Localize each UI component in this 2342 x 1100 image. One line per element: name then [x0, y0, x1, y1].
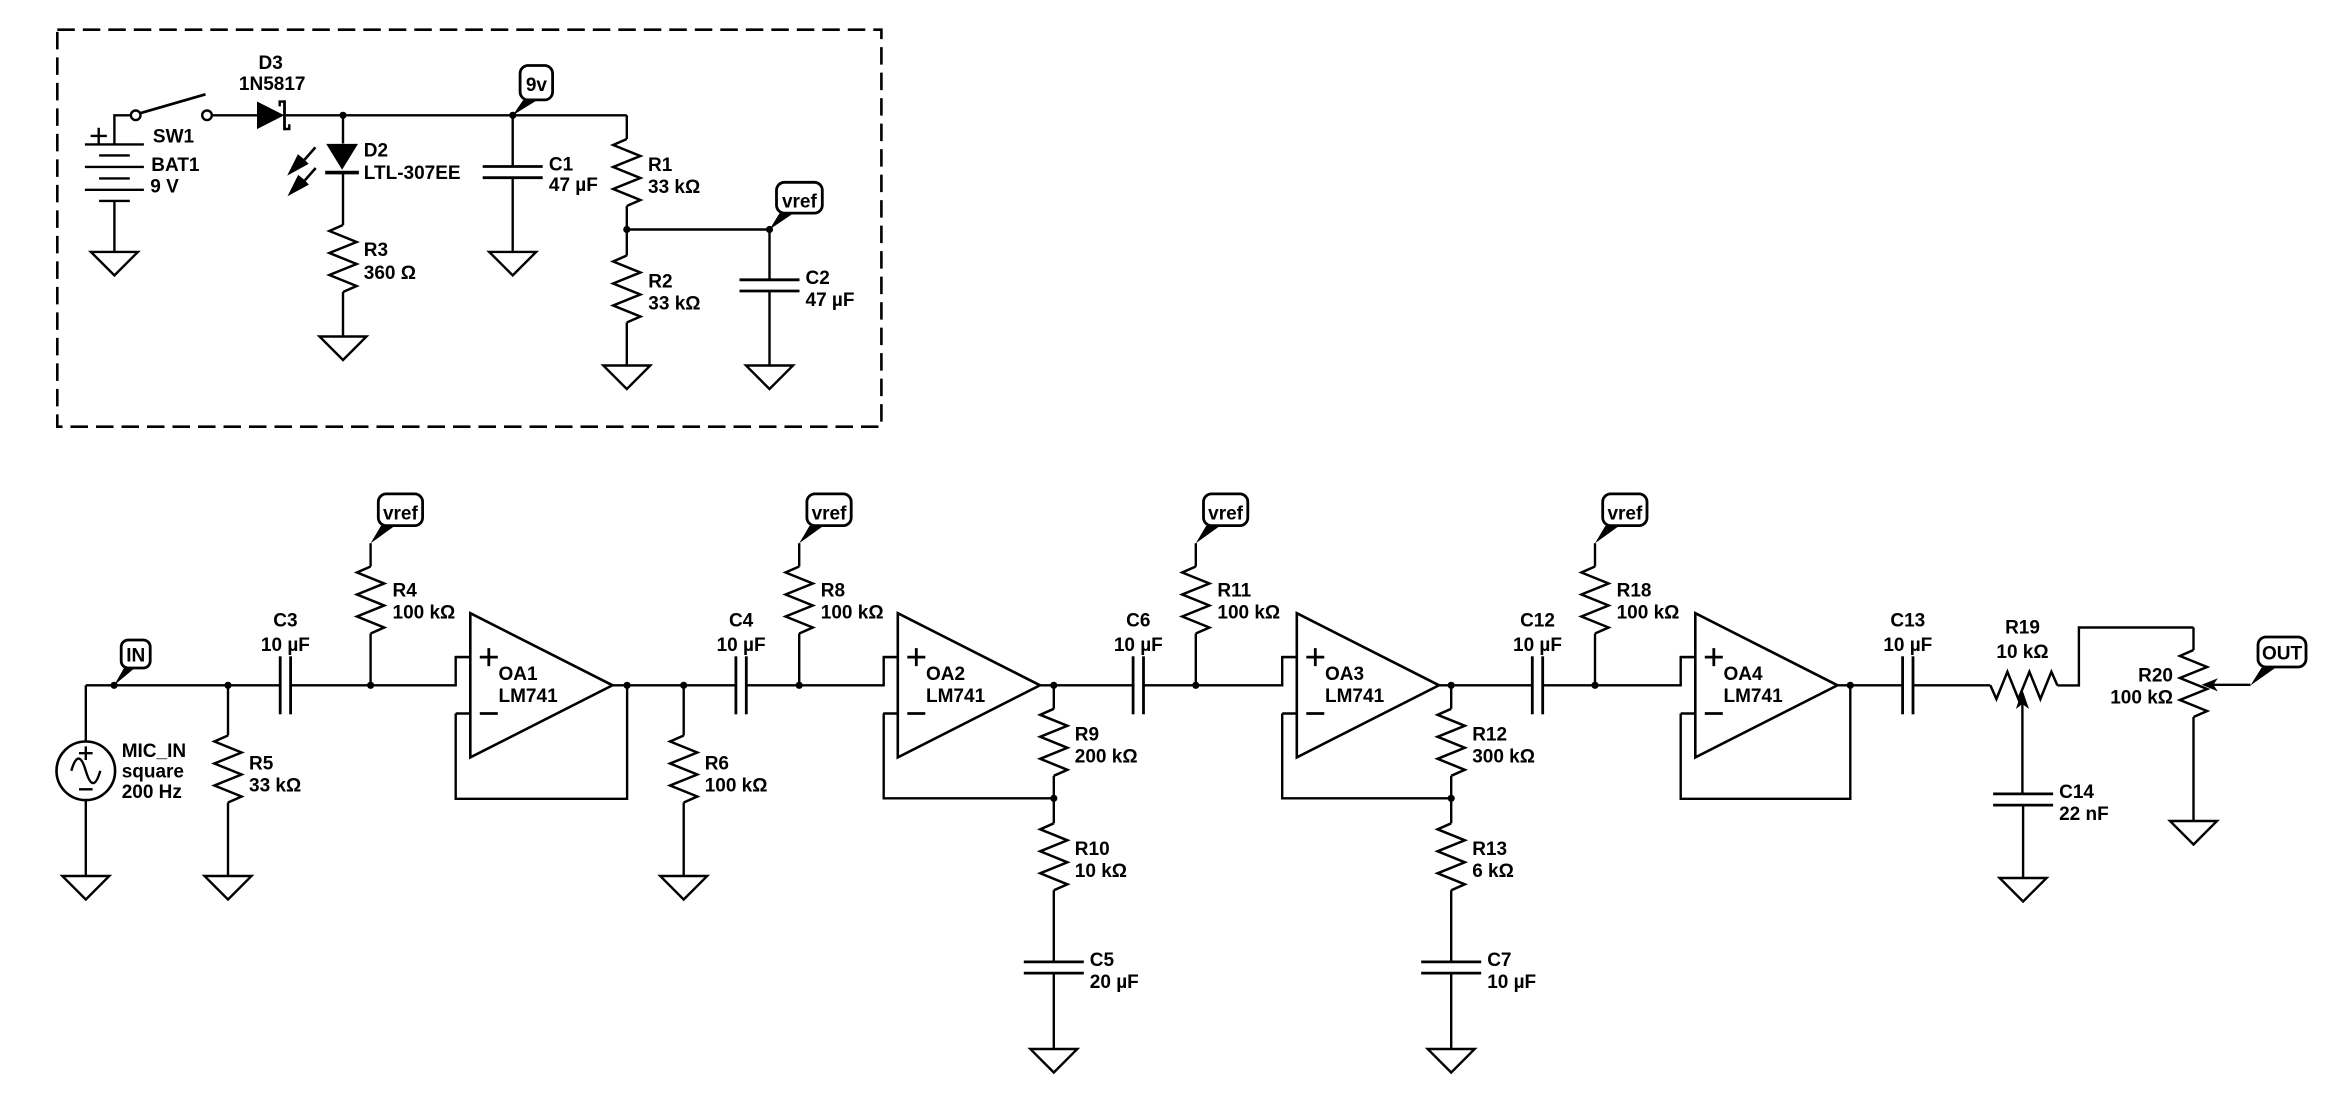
- ground: [205, 876, 252, 900]
- wire R19 to R20: [2057, 628, 2193, 686]
- svg-text:OA1: OA1: [499, 664, 539, 685]
- svg-text:C6: C6: [1126, 611, 1150, 632]
- ground: [489, 252, 536, 276]
- node: [509, 112, 516, 119]
- net OUT: [2251, 637, 2307, 685]
- capacitor C2: [768, 230, 770, 280]
- svg-text:D2: D2: [364, 140, 388, 161]
- op-amp OA3: [1282, 613, 1439, 757]
- capacitor C5: [1024, 962, 1084, 973]
- svg-text:47 µF: 47 µF: [806, 290, 855, 311]
- wire OA2 feedback: [884, 714, 1054, 799]
- resistor R2: [626, 230, 628, 256]
- potentiometer R19: [1990, 672, 2057, 699]
- svg-text:LTL-307EE: LTL-307EE: [364, 163, 461, 184]
- svg-text:47 µF: 47 µF: [549, 175, 598, 196]
- wire switch to diode: [212, 114, 257, 116]
- svg-text:10 µF: 10 µF: [1487, 972, 1536, 993]
- wire C12 to OA4 plus input: [1543, 657, 1696, 685]
- node: [1050, 795, 1057, 802]
- resistor R11: [1195, 634, 1197, 686]
- switch SW1: [131, 111, 141, 121]
- svg-text:R20: R20: [2138, 666, 2173, 687]
- node: [766, 226, 773, 233]
- ground: [746, 366, 793, 390]
- svg-text:33 kΩ: 33 kΩ: [648, 177, 700, 198]
- net vref: [371, 494, 423, 543]
- ground: [603, 366, 650, 390]
- node: [1847, 682, 1854, 689]
- svg-text:33 kΩ: 33 kΩ: [249, 776, 301, 797]
- node: [1591, 682, 1598, 689]
- capacitor C1: [512, 115, 514, 166]
- svg-text:200 Hz: 200 Hz: [122, 782, 182, 803]
- wire R1 to node: [626, 206, 628, 230]
- svg-text:LM741: LM741: [1325, 686, 1385, 707]
- svg-text:R11: R11: [1217, 581, 1251, 602]
- svg-text:SW1: SW1: [153, 127, 195, 148]
- svg-text:D3: D3: [259, 53, 283, 74]
- power supply enclosure: [57, 30, 881, 427]
- diode D3: [257, 100, 289, 130]
- wire main line to C3: [86, 684, 280, 686]
- wire OA1 output: [613, 684, 736, 686]
- svg-text:OA4: OA4: [1724, 664, 1764, 685]
- wire R3 to ground: [342, 292, 344, 337]
- wire OA3 feedback: [1282, 714, 1451, 799]
- svg-text:100 kΩ: 100 kΩ: [1217, 603, 1280, 624]
- resistor R3: [329, 225, 356, 292]
- capacitor C14: [1993, 794, 2053, 805]
- wire LED to R3: [342, 172, 344, 226]
- svg-text:10 µF: 10 µF: [1513, 635, 1562, 656]
- node: [624, 682, 631, 689]
- svg-text:LM741: LM741: [926, 686, 986, 707]
- ground: [62, 876, 109, 900]
- svg-text:OUT: OUT: [2262, 644, 2303, 665]
- svg-text:IN: IN: [126, 645, 145, 666]
- svg-text:10 µF: 10 µF: [1114, 635, 1163, 656]
- svg-text:22 nF: 22 nF: [2059, 804, 2109, 825]
- svg-text:10 µF: 10 µF: [717, 635, 766, 656]
- svg-text:C13: C13: [1890, 611, 1925, 632]
- svg-text:OA3: OA3: [1325, 664, 1364, 685]
- svg-text:9v: 9v: [526, 75, 548, 96]
- svg-text:MIC_IN: MIC_IN: [122, 741, 186, 762]
- resistor R5: [227, 685, 229, 735]
- svg-text:C4: C4: [729, 611, 754, 632]
- svg-text:LM741: LM741: [499, 686, 559, 707]
- svg-text:200 kΩ: 200 kΩ: [1075, 747, 1138, 768]
- svg-text:vref: vref: [1607, 504, 1643, 525]
- svg-text:R19: R19: [2005, 618, 2040, 639]
- node: [680, 682, 687, 689]
- svg-text:R18: R18: [1617, 581, 1652, 602]
- potentiometer R20: [2192, 628, 2194, 651]
- svg-text:10 µF: 10 µF: [1883, 635, 1932, 656]
- net IN: [114, 640, 150, 685]
- svg-text:vref: vref: [383, 504, 419, 525]
- net vref: [1196, 494, 1248, 543]
- resistor R13: [1450, 798, 1452, 823]
- svg-text:C12: C12: [1520, 611, 1555, 632]
- ground: [320, 337, 367, 361]
- node: [1448, 795, 1455, 802]
- svg-text:1N5817: 1N5817: [239, 74, 306, 95]
- ground: [2170, 821, 2217, 845]
- svg-text:R8: R8: [821, 581, 845, 602]
- node: [1192, 682, 1199, 689]
- battery BAT1: [85, 128, 144, 201]
- wire main 9v rail: [286, 114, 627, 116]
- svg-text:R5: R5: [249, 754, 274, 775]
- wire OA2 output: [1040, 684, 1133, 686]
- wire OA3 output: [1439, 684, 1532, 686]
- svg-text:10 µF: 10 µF: [261, 635, 310, 656]
- resistor R4: [369, 634, 371, 686]
- net vref: [1595, 494, 1647, 543]
- node: [1448, 682, 1455, 689]
- capacitor C12: [1532, 656, 1542, 714]
- svg-text:R13: R13: [1472, 839, 1507, 860]
- svg-text:33 kΩ: 33 kΩ: [648, 294, 700, 315]
- resistor R1: [613, 139, 640, 206]
- svg-text:100 kΩ: 100 kΩ: [1617, 603, 1680, 624]
- svg-text:R9: R9: [1075, 725, 1099, 746]
- resistor R10: [1053, 798, 1055, 823]
- node: [623, 226, 630, 233]
- net vref: [799, 494, 851, 543]
- svg-text:R2: R2: [648, 272, 672, 293]
- op-amp OA4: [1681, 613, 1838, 757]
- svg-text:10 kΩ: 10 kΩ: [1075, 861, 1127, 882]
- svg-text:R3: R3: [364, 240, 388, 261]
- wire node to LED: [342, 115, 344, 143]
- resistor R9: [1053, 685, 1055, 709]
- capacitor C3: [280, 656, 290, 714]
- svg-text:360 Ω: 360 Ω: [364, 263, 416, 284]
- svg-text:C2: C2: [806, 268, 830, 289]
- svg-text:C1: C1: [549, 155, 574, 176]
- node: [339, 112, 346, 119]
- resistor R18: [1594, 634, 1596, 686]
- wire battery plus to switch: [114, 115, 130, 143]
- ground: [91, 252, 138, 276]
- wire C6 to OA3 plus input: [1144, 657, 1297, 685]
- wire C4 to OA2 plus input: [746, 657, 898, 685]
- node: [224, 682, 231, 689]
- svg-text:6 kΩ: 6 kΩ: [1472, 861, 1514, 882]
- node: [1050, 682, 1057, 689]
- svg-text:vref: vref: [782, 192, 818, 213]
- wire source to main line: [85, 685, 87, 741]
- ground: [2000, 878, 2047, 902]
- svg-text:R10: R10: [1075, 839, 1110, 860]
- svg-text:9 V: 9 V: [150, 177, 179, 198]
- resistor R12: [1450, 685, 1452, 709]
- svg-text:OA2: OA2: [926, 664, 965, 685]
- LED D2: [287, 144, 359, 196]
- wire battery minus to ground: [113, 201, 115, 252]
- wire rail corner to R1: [626, 115, 628, 139]
- wire source to ground: [85, 800, 87, 876]
- svg-text:300 kΩ: 300 kΩ: [1472, 747, 1535, 768]
- capacitor C6: [1133, 656, 1143, 714]
- svg-text:vref: vref: [812, 504, 848, 525]
- capacitor C4: [736, 656, 746, 714]
- svg-text:C7: C7: [1487, 950, 1511, 971]
- node: [367, 682, 374, 689]
- op-amp OA2: [883, 613, 1040, 757]
- node: [111, 682, 118, 689]
- ground: [660, 876, 707, 900]
- wire OA4 output: [1838, 684, 1903, 686]
- svg-text:R6: R6: [705, 754, 729, 775]
- svg-text:100 kΩ: 100 kΩ: [821, 603, 884, 624]
- svg-text:100 kΩ: 100 kΩ: [393, 603, 456, 624]
- svg-text:R1: R1: [648, 155, 673, 176]
- wire C13 to R19: [1913, 684, 1990, 686]
- ground: [1428, 1049, 1475, 1073]
- svg-text:LM741: LM741: [1724, 686, 1784, 707]
- svg-text:100 kΩ: 100 kΩ: [2110, 688, 2173, 709]
- svg-text:square: square: [122, 762, 184, 783]
- net vref: [770, 182, 823, 229]
- wire C3 to OA1 plus input: [291, 657, 471, 685]
- svg-text:100 kΩ: 100 kΩ: [705, 776, 768, 797]
- node: [796, 682, 803, 689]
- resistor R6: [683, 685, 685, 735]
- svg-text:R4: R4: [393, 581, 418, 602]
- svg-text:C5: C5: [1090, 950, 1115, 971]
- svg-text:C3: C3: [273, 611, 297, 632]
- capacitor C7: [1421, 962, 1481, 973]
- wire OA1 feedback: [456, 685, 627, 799]
- svg-text:C14: C14: [2059, 782, 2094, 803]
- svg-text:20 µF: 20 µF: [1090, 972, 1139, 993]
- ground: [1030, 1049, 1077, 1073]
- svg-text:BAT1: BAT1: [151, 155, 200, 176]
- svg-text:vref: vref: [1208, 504, 1244, 525]
- resistor R8: [798, 634, 800, 686]
- svg-text:10 kΩ: 10 kΩ: [1996, 642, 2048, 663]
- op-amp OA1: [456, 613, 613, 757]
- wire OA4 feedback: [1681, 685, 1851, 799]
- svg-text:R12: R12: [1472, 725, 1507, 746]
- net 9v: [513, 66, 553, 116]
- source MIC_IN: [57, 742, 116, 801]
- capacitor C13: [1903, 656, 1913, 714]
- wire divider to vref: [627, 228, 770, 230]
